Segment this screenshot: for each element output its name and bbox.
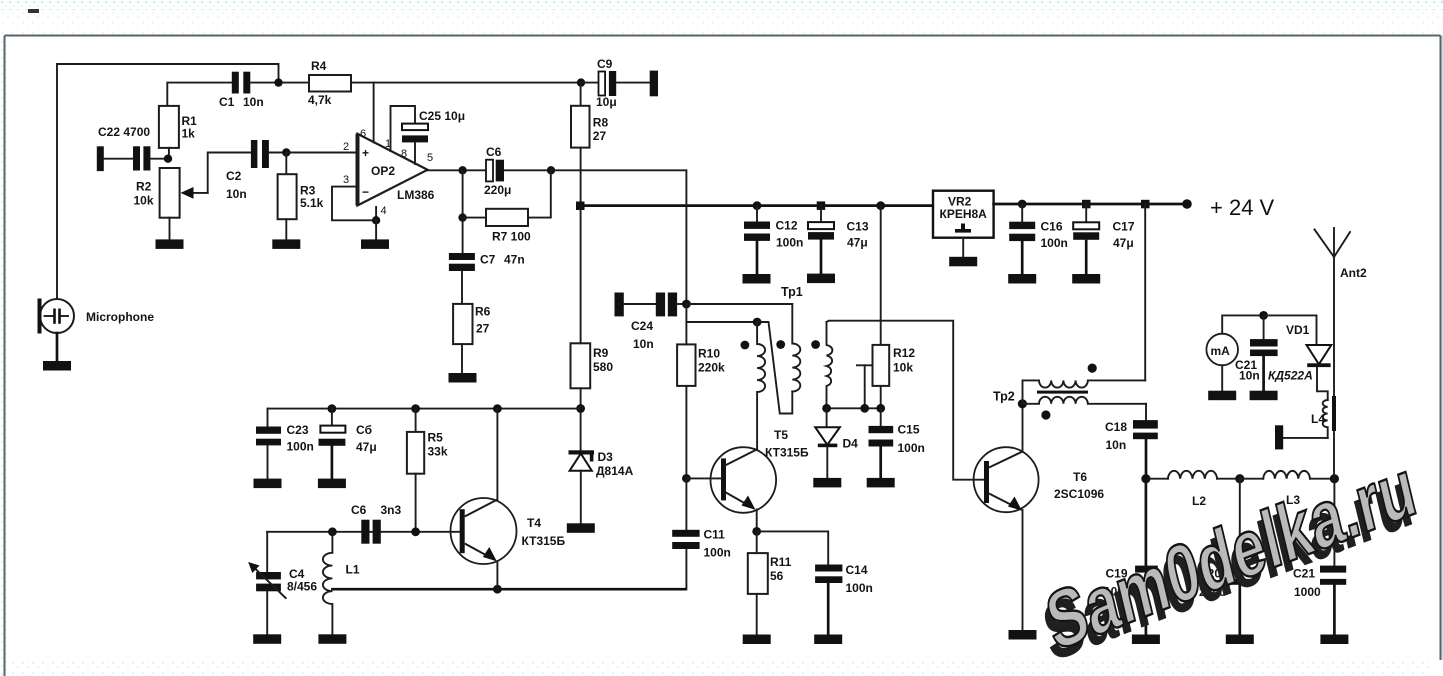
node Tp1 primary top [753, 318, 762, 327]
wire T6 collector to Tp2 [1022, 404, 1024, 452]
svg-text:КТ315Б: КТ315Б [765, 446, 809, 460]
svg-text:10k: 10k [893, 361, 913, 375]
svg-text:Тр1: Тр1 [781, 285, 803, 299]
svg-text:8: 8 [401, 148, 407, 160]
node secondary/D4 [822, 404, 831, 413]
wire T6 emitter down [1022, 510, 1024, 630]
tap wire left of R12 [857, 365, 873, 408]
wire mic to ground [56, 333, 59, 362]
ground (R3) [272, 239, 300, 249]
terminal + capacitor C24 10n [615, 293, 687, 352]
svg-text:+ 24 V: + 24 V [1210, 195, 1275, 220]
resistor R10 220k [677, 322, 725, 478]
node C18/L2 [1141, 474, 1150, 483]
node rail/R5 [411, 404, 420, 413]
svg-text:LM386: LM386 [397, 188, 435, 202]
svg-text:C22 4700: C22 4700 [98, 125, 150, 139]
svg-text:R10: R10 [698, 347, 720, 361]
capacitor C19 1000 [1104, 479, 1158, 635]
microphone M1 [38, 299, 155, 334]
svg-text:C2: C2 [226, 169, 242, 183]
node R12/C15 [876, 404, 885, 413]
terminal + capacitor C22 4700 [97, 125, 168, 171]
svg-text:C14: C14 [846, 563, 868, 577]
ground (C19) [1132, 635, 1160, 645]
milliamperemeter mA [1206, 315, 1263, 391]
wire T5 collector to Tp1 [756, 449, 758, 451]
node junction R1/R2/C22 [164, 155, 172, 163]
svg-text:10k: 10k [134, 194, 154, 208]
wire op-amp output pin 5 [428, 169, 487, 171]
wire pin4 to ground [375, 220, 377, 239]
svg-text:C15: C15 [898, 423, 920, 437]
svg-text:L4: L4 [1311, 412, 1325, 426]
node base/R5 [411, 527, 420, 536]
node junction R4-line/R8 [577, 78, 585, 86]
node +24V terminal [1182, 199, 1192, 209]
svg-text:L2: L2 [1192, 494, 1206, 508]
ground (C16) [1008, 274, 1036, 284]
antenna Ant2 [1315, 228, 1367, 479]
inductor L2 [1146, 471, 1240, 508]
svg-text:D4: D4 [843, 437, 859, 451]
svg-text:Ant2: Ant2 [1340, 266, 1367, 280]
resistor R3 5.1k [278, 153, 324, 240]
wire C24 junction to Tp1 middle winding [686, 303, 792, 305]
resistor R9 580 [571, 206, 614, 409]
phase dot secondary [811, 340, 820, 349]
node junction C6 out [547, 166, 555, 174]
capacitor C16 100n [1009, 204, 1068, 274]
node bus/R12-line [876, 201, 885, 210]
ground (C14) [814, 635, 842, 645]
svg-text:T5: T5 [774, 428, 788, 442]
svg-text:R6: R6 [475, 305, 491, 319]
inductor L4 [1311, 396, 1334, 438]
wire op-amp pin 3 feedback hook to pin 4 [332, 187, 376, 221]
wire T4 emitter / L1 tap [332, 588, 685, 591]
svg-text:C25 10μ: C25 10μ [419, 109, 465, 123]
svg-text:47n: 47n [504, 253, 525, 267]
capacitor C21 10n [1235, 315, 1278, 391]
inductor L1 tapped [323, 532, 360, 635]
node Tp2/collector [1018, 399, 1027, 408]
diode VD1 KD522A [1264, 315, 1332, 400]
svg-text:56: 56 [770, 569, 784, 583]
capacitor C14 100n [815, 563, 873, 635]
wire secondary bottom rail [827, 407, 881, 409]
svg-text:10n: 10n [1106, 438, 1127, 452]
svg-text:3: 3 [343, 174, 349, 186]
svg-text:100n: 100n [898, 441, 925, 455]
node bus/C16 [1018, 200, 1027, 209]
node rail/C5 [328, 404, 337, 413]
ground (C23) [254, 479, 282, 489]
variable capacitor C4 8/456 [248, 532, 317, 635]
ground (C12) [743, 274, 771, 284]
wire top-left vertical from mic to top rail [57, 64, 279, 299]
node mA/C21-10n [1259, 311, 1268, 320]
svg-text:T6: T6 [1073, 470, 1087, 484]
phase dot Tp2 bottom [1041, 410, 1050, 419]
terminal bar near L4 [1275, 425, 1328, 449]
svg-text:100n: 100n [1041, 236, 1068, 250]
resistor R11 56 [748, 531, 792, 634]
ground (T6) [1009, 630, 1037, 640]
svg-text:580: 580 [593, 360, 613, 374]
ground (R2) [156, 239, 184, 249]
capacitor C13 47u electrolytic [808, 206, 869, 274]
svg-text:C9: C9 [597, 57, 613, 71]
watermark Sam0delka.ru [1033, 442, 1426, 676]
svg-text:5: 5 [427, 152, 433, 164]
svg-text:100n: 100n [776, 236, 803, 250]
wire T4 collector up [496, 409, 498, 500]
transformer Tp1 middle winding [792, 304, 800, 392]
svg-text:C7: C7 [480, 253, 496, 267]
svg-text:КРЕН8А: КРЕН8А [940, 207, 988, 221]
svg-text:220k: 220k [698, 361, 725, 375]
svg-text:C6: C6 [486, 145, 502, 159]
capacitor C18 10n [1105, 404, 1158, 479]
svg-text:R7 100: R7 100 [492, 230, 531, 244]
capacitor C8 3n3 [351, 503, 402, 544]
resistor R6 27 [453, 304, 491, 374]
resistor R12 10k [873, 206, 916, 408]
svg-text:10n: 10n [1239, 369, 1260, 383]
capacitor C2 10n [226, 140, 286, 201]
node rail/R9-D3 [576, 404, 585, 413]
svg-text:C18: C18 [1105, 420, 1127, 434]
svg-text:C6: C6 [351, 503, 367, 517]
wire T4 base [267, 531, 460, 533]
svg-text:100n: 100n [846, 581, 873, 595]
wire C2 junction to op-amp pin 2 [286, 152, 357, 154]
ground (C4) [253, 634, 281, 644]
capacitor C20 2200 [1199, 479, 1250, 635]
transformer Tp2 core [1037, 391, 1088, 394]
ground (C21-10n) [1250, 391, 1278, 401]
node junction R10/T5 base [682, 474, 691, 483]
ground (C15) [867, 478, 895, 488]
node bus/C12 [753, 201, 762, 210]
transistor T6 2SC1096 [974, 447, 1105, 512]
svg-text:R9: R9 [593, 346, 609, 360]
capacitor C6 220u [484, 145, 551, 197]
ground (C21) [1320, 635, 1348, 645]
diode D4 [815, 408, 858, 478]
svg-text:КД522А: КД522А [1268, 369, 1313, 383]
capacitor C12 100n [744, 206, 803, 275]
transistor T4 KT315B [451, 498, 566, 564]
transformer Tp1 core slant [757, 322, 792, 414]
node bus/Tp2-line [1141, 200, 1150, 209]
phase dot middle [776, 340, 785, 349]
ground (C17) [1072, 274, 1100, 284]
svg-text:10μ: 10μ [596, 95, 617, 109]
svg-text:10n: 10n [633, 337, 654, 351]
svg-text:R2: R2 [136, 180, 152, 194]
wire Tp1 secondary top to T6 base [827, 321, 985, 480]
svg-text:C16: C16 [1041, 220, 1063, 234]
svg-text:2SC1096: 2SC1096 [1054, 487, 1104, 501]
transformer Tp2 top winding [1023, 380, 1146, 403]
ground (D3) [567, 523, 595, 533]
node junction C1/R4 [274, 78, 282, 86]
capacitor C21 1000 [1293, 479, 1346, 635]
transistor T5 KT315B [686, 428, 809, 513]
svg-text:47μ: 47μ [356, 440, 377, 454]
wire T4 emitter segment [496, 562, 498, 590]
svg-text:5.1k: 5.1k [300, 196, 324, 210]
capacitor C5 47u electrolytic [319, 409, 377, 479]
capacitor C17 47u electrolytic [1073, 204, 1135, 274]
svg-text:R12: R12 [893, 346, 915, 360]
wire C6-junction to C24 junction [551, 170, 686, 304]
capacitor C7 47n [449, 218, 525, 304]
wire bus right of VR2 [994, 203, 1187, 206]
resistor R4 4,7k [282, 59, 581, 107]
svg-text:L1: L1 [346, 563, 360, 577]
ground (mA) [1208, 391, 1236, 401]
ground (VR2) [949, 257, 977, 267]
svg-text:D3: D3 [598, 450, 614, 464]
wire emitter to C14 [757, 531, 829, 564]
ground (C20) [1226, 635, 1254, 645]
node junction output/C6 [458, 166, 466, 174]
ground (op-amp) [361, 239, 389, 249]
svg-text:Cб: Cб [356, 423, 372, 437]
node bus/C17 [1082, 200, 1091, 209]
svg-text:C13: C13 [847, 220, 869, 234]
capacitor C9 10u with terminal [581, 57, 658, 109]
node L3/C21/antenna [1330, 474, 1339, 483]
wire oscillator supply rail [268, 408, 581, 410]
capacitor C25 10u pins 1-8 [391, 106, 466, 164]
svg-text:6: 6 [360, 128, 366, 140]
resistor R7 100 [458, 170, 550, 243]
ground (C13) [807, 274, 835, 284]
svg-text:−: − [362, 185, 369, 199]
svg-text:3n3: 3n3 [381, 503, 402, 517]
svg-text:C12: C12 [776, 219, 798, 233]
wire op-amp pin 6 to supply [373, 83, 375, 143]
wire +24V bus [578, 204, 934, 207]
svg-text:27: 27 [593, 129, 607, 143]
svg-text:220μ: 220μ [484, 183, 511, 197]
node T5 emitter junction [752, 527, 761, 536]
wire bus to Tp2 [1144, 204, 1146, 380]
svg-text:33k: 33k [428, 445, 448, 459]
svg-text:2: 2 [343, 141, 349, 153]
svg-text:10n: 10n [243, 95, 264, 109]
zener diode D3 D814A [569, 409, 634, 524]
svg-text:47μ: 47μ [847, 236, 868, 250]
capacitor C15 100n [869, 408, 925, 478]
node pin4 junction [372, 216, 380, 224]
svg-text:1k: 1k [182, 127, 196, 141]
regulator VR2 KREN8A [933, 191, 994, 258]
resistor R5 33k [407, 409, 448, 532]
potentiometer R2 10k [134, 153, 252, 240]
svg-text:10n: 10n [226, 187, 247, 201]
wire junction to Tp1 primary top [686, 304, 757, 322]
node tap [860, 404, 869, 413]
svg-text:OP2: OP2 [371, 164, 395, 178]
svg-text:Тр2: Тр2 [993, 390, 1015, 404]
svg-text:C1: C1 [219, 95, 235, 109]
op-amp OP2 LM386 [343, 128, 435, 217]
svg-text:КТ315Б: КТ315Б [522, 534, 566, 548]
svg-text:R5: R5 [428, 431, 444, 445]
svg-text:100n: 100n [704, 546, 731, 560]
svg-text:C17: C17 [1113, 220, 1135, 234]
svg-text:C24: C24 [631, 319, 653, 333]
svg-text:VD1: VD1 [1286, 323, 1310, 337]
resistor R1 1k [159, 106, 197, 159]
svg-text:4,7k: 4,7k [308, 93, 332, 107]
ground (C5) [318, 479, 346, 489]
svg-text:100n: 100n [287, 440, 314, 454]
transformer Tp1 primary winding [757, 322, 765, 449]
node bus/R8-R9 [576, 202, 585, 211]
resistor R8 27 [571, 83, 608, 206]
transformer Tp1 secondary winding [827, 322, 833, 408]
inductor L3 [1240, 471, 1335, 507]
svg-text:mA: mA [1211, 344, 1231, 358]
svg-text:+: + [362, 146, 369, 160]
capacitor C23 100n [256, 409, 314, 479]
svg-text:47μ: 47μ [1113, 236, 1134, 250]
ground (mic) [43, 361, 71, 371]
node junction C24/R10 [682, 300, 691, 309]
svg-text:R8: R8 [593, 116, 609, 130]
node rail/T4 collector [493, 404, 502, 413]
capacitor C11 100n [672, 478, 731, 589]
ground (D4) [813, 478, 841, 488]
svg-text:27: 27 [476, 322, 490, 336]
phase dot Tp2 top [1088, 364, 1097, 373]
wire T5 emitter down [756, 510, 758, 532]
svg-text:C11: C11 [704, 528, 726, 542]
svg-text:R11: R11 [770, 555, 792, 569]
svg-text:T4: T4 [527, 516, 541, 530]
ground (R6) [449, 373, 477, 383]
ground (R11) [743, 635, 771, 645]
phase dot primary [741, 341, 750, 350]
svg-text:4: 4 [381, 205, 387, 217]
svg-text:R4: R4 [311, 59, 327, 73]
node bus/C13 [817, 201, 826, 210]
node L2/L3/C20 [1235, 474, 1244, 483]
transformer Tp2 bottom winding [1022, 397, 1146, 404]
ground (L1) [318, 634, 346, 644]
node junction C2/R3 [282, 148, 290, 156]
svg-text:8/456: 8/456 [287, 580, 317, 594]
node base/L1 [328, 527, 337, 536]
node emitter T4 [493, 585, 502, 594]
svg-text:Microphone: Microphone [86, 310, 154, 324]
capacitor C1 10n [167, 72, 278, 109]
svg-text:Д814А: Д814А [596, 464, 634, 478]
svg-text:C23: C23 [287, 423, 309, 437]
